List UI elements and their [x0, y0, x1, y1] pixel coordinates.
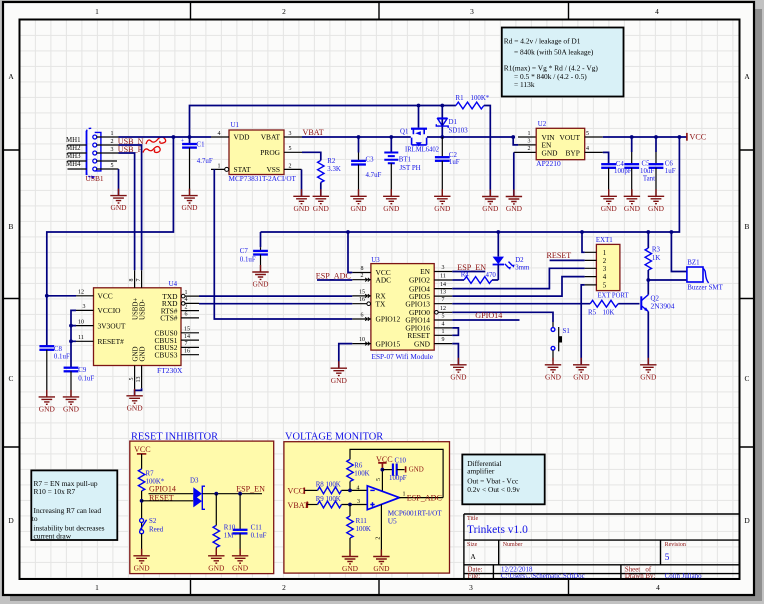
transistor Q1 IRLML6402 — [400, 106, 440, 154]
svg-text:R11: R11 — [356, 518, 368, 525]
svg-text:C: C — [745, 374, 750, 383]
capacitor C5 — [631, 137, 633, 152]
svg-text:5: 5 — [586, 131, 589, 137]
svg-text:16: 16 — [184, 349, 190, 355]
svg-text:amplifier: amplifier — [467, 466, 495, 475]
svg-text:4.7uF: 4.7uF — [197, 158, 213, 165]
svg-text:VOUT: VOUT — [560, 133, 581, 142]
svg-text:AP2210: AP2210 — [536, 159, 561, 168]
svg-text:4: 4 — [656, 583, 660, 592]
svg-text:A: A — [470, 552, 476, 561]
ground under S2 — [133, 549, 150, 573]
svg-text:14: 14 — [184, 334, 190, 340]
battery BT1 — [390, 137, 392, 153]
wire GPIO5 to EXT1 pin4 — [452, 277, 584, 297]
svg-text:100K*: 100K* — [471, 95, 490, 102]
svg-text:EXT PORT: EXT PORT — [598, 290, 629, 299]
wire VCC rail to BZ1 top — [671, 232, 687, 272]
transistor Q2 2N3904 — [641, 280, 675, 365]
svg-text:MCP73831T-2ACI/OT: MCP73831T-2ACI/OT — [229, 174, 297, 183]
svg-text:6: 6 — [361, 313, 364, 319]
ground under USB — [110, 189, 127, 213]
svg-text:3: 3 — [469, 583, 473, 592]
svg-text:IRLML6402: IRLML6402 — [405, 146, 440, 153]
svg-text:BT1: BT1 — [399, 156, 412, 163]
svg-text:ESP-07 Wifi Module: ESP-07 Wifi Module — [372, 352, 434, 361]
svg-text:8: 8 — [361, 266, 364, 272]
op-amp U5 MCP6001 — [367, 486, 399, 510]
connector USB1 — [86, 128, 119, 183]
svg-text:GND: GND — [133, 347, 140, 362]
svg-text:6: 6 — [185, 312, 188, 318]
svg-text:U1: U1 — [231, 122, 240, 129]
wire VBAT to Q1 — [302, 136, 411, 138]
capacitor C2 — [441, 137, 443, 157]
svg-text:S1: S1 — [563, 328, 571, 335]
svg-text:MH1: MH1 — [66, 137, 81, 144]
svg-text:3: 3 — [603, 266, 607, 273]
svg-text:1: 1 — [111, 131, 114, 137]
capacitor C4 — [601, 164, 616, 168]
svg-text:R2: R2 — [327, 158, 336, 165]
svg-text:MH3: MH3 — [66, 153, 81, 160]
ground under U3 GND — [450, 358, 467, 382]
svg-text:Buzzer SMT: Buzzer SMT — [687, 284, 723, 291]
wire GPIO13 to R5 — [452, 303, 590, 305]
node RESET junction — [140, 499, 144, 503]
svg-text:VCCIO: VCCIO — [98, 306, 122, 315]
svg-text:R4: R4 — [461, 272, 470, 279]
wire op-amp output — [399, 497, 443, 499]
resistor R9 — [307, 504, 317, 506]
svg-text:1uF: 1uF — [449, 159, 460, 166]
wire gate rail to Q1/D1/R1 — [190, 106, 456, 138]
IC U3 ESP-07 module — [352, 257, 452, 361]
svg-text:GPIO14: GPIO14 — [149, 484, 176, 493]
svg-text:C6: C6 — [665, 160, 674, 167]
title block — [464, 514, 740, 580]
wire U1 STAT to U3 GPIO12 — [214, 169, 352, 319]
svg-text:5: 5 — [665, 552, 670, 563]
ground port (monitor) — [405, 466, 407, 472]
svg-text:2: 2 — [289, 163, 292, 169]
wire GPIO14 stub — [452, 319, 519, 321]
svg-text:100pF: 100pF — [614, 168, 632, 175]
svg-text:11: 11 — [440, 274, 446, 280]
wire D3 out to ESP_EN — [202, 493, 262, 495]
svg-text:R5: R5 — [588, 310, 597, 317]
svg-text:2: 2 — [603, 258, 607, 265]
svg-text:R10 = 10x R7: R10 = 10x R7 — [34, 487, 76, 496]
wire U4 RXD to U3 TX — [199, 303, 352, 305]
svg-text:11: 11 — [78, 335, 84, 341]
resistor R4 — [452, 279, 464, 281]
svg-text:Title: Title — [467, 516, 478, 522]
svg-text:U4: U4 — [169, 281, 178, 288]
resistor R5 — [590, 300, 618, 307]
svg-text:VBAT: VBAT — [303, 128, 324, 137]
svg-text:10: 10 — [359, 337, 365, 343]
svg-text:8: 8 — [129, 279, 135, 282]
svg-text:VOLTAGE MONITOR: VOLTAGE MONITOR — [285, 432, 383, 443]
wire VBUS from USB pin1 to U1 VDD — [119, 136, 212, 138]
capacitor C9 — [64, 368, 79, 372]
svg-text:100pF: 100pF — [389, 475, 407, 482]
svg-text:R8 100K: R8 100K — [316, 482, 341, 489]
svg-text:4: 4 — [655, 7, 659, 16]
svg-text:= 113k: = 113k — [514, 80, 535, 89]
svg-text:Increasing R7 can lead: Increasing R7 can lead — [34, 506, 102, 515]
svg-text:10: 10 — [78, 319, 84, 325]
svg-text:C1: C1 — [197, 142, 206, 149]
svg-text:A: A — [8, 72, 14, 81]
svg-text:B: B — [745, 222, 750, 231]
svg-text:ESP_ADC: ESP_ADC — [407, 493, 442, 502]
svg-text:5: 5 — [603, 283, 607, 290]
svg-text:9: 9 — [442, 337, 445, 343]
ground under C11 — [232, 549, 249, 573]
connector EXT1 — [585, 237, 629, 299]
resistor R3 — [647, 232, 649, 248]
svg-text:VSS: VSS — [266, 165, 280, 174]
resistor R7 — [138, 469, 144, 491]
svg-text:3V3OUT: 3V3OUT — [98, 321, 126, 330]
svg-text:4: 4 — [185, 297, 188, 303]
svg-text:5: 5 — [442, 314, 445, 320]
ground under U4 — [126, 389, 143, 413]
svg-text:VBAT: VBAT — [288, 501, 309, 510]
switch S1 — [551, 327, 570, 361]
ground under C1 — [181, 189, 198, 213]
svg-text:D2: D2 — [515, 257, 524, 264]
svg-text:D: D — [744, 516, 750, 525]
note box differential amplifier — [462, 455, 544, 505]
resistor R10 — [215, 494, 217, 526]
ground under C2 — [434, 189, 451, 213]
svg-text:BZ1: BZ1 — [687, 260, 700, 267]
svg-text:1: 1 — [603, 250, 607, 257]
ground under S1 — [545, 358, 562, 382]
svg-text:D: D — [8, 516, 14, 525]
svg-text:D1: D1 — [449, 119, 458, 126]
wire VCCIO chain to C9 — [71, 310, 76, 367]
svg-text:R3: R3 — [652, 247, 661, 254]
svg-text:USB1: USB1 — [86, 174, 104, 183]
switch S2 — [140, 519, 144, 523]
ground under C9 — [63, 390, 80, 414]
wire RESET node to D3 — [142, 500, 194, 502]
wire GPIO4 to EXT1 pin3 — [452, 268, 584, 288]
svg-text:Reed: Reed — [149, 526, 164, 533]
svg-text:1: 1 — [95, 7, 99, 16]
power port VCC — [686, 133, 688, 141]
svg-text:SD103: SD103 — [449, 127, 469, 134]
svg-text:GND: GND — [409, 467, 424, 474]
svg-text:U3: U3 — [371, 257, 380, 264]
wire rail to EXT1 pin1 — [582, 232, 585, 252]
svg-text:0.1uF: 0.1uF — [54, 354, 70, 361]
wire ESP_ADC to U3 ADC — [317, 279, 352, 281]
svg-text:U5: U5 — [388, 517, 397, 526]
wire USB_N down to U4 — [119, 145, 142, 270]
wire GPIO14 to D3 — [149, 493, 194, 495]
resistor R2 — [318, 160, 324, 182]
svg-text:JST PH: JST PH — [400, 165, 421, 172]
svg-text:VCC: VCC — [690, 133, 707, 142]
svg-text:2: 2 — [185, 304, 188, 310]
svg-text:2: 2 — [361, 273, 364, 279]
svg-text:C10: C10 — [395, 457, 407, 464]
ground under VSS — [293, 189, 310, 213]
svg-text:R7: R7 — [146, 471, 155, 478]
svg-text:3: 3 — [289, 131, 292, 137]
wire RESET to EXT1 pin2 — [550, 259, 585, 261]
svg-text:2N3904: 2N3904 — [651, 304, 676, 311]
svg-text:VCC: VCC — [288, 487, 305, 496]
ground under EXT1 pin5 — [573, 358, 590, 382]
svg-text:STAT: STAT — [234, 165, 252, 174]
svg-text:C9: C9 — [78, 367, 87, 374]
svg-text:4: 4 — [586, 146, 589, 152]
svg-text:USBD+: USBD+ — [133, 298, 140, 320]
svg-text:15: 15 — [184, 327, 190, 333]
svg-text:GPIO14: GPIO14 — [475, 311, 502, 320]
svg-text:C7: C7 — [240, 248, 249, 255]
svg-text:13: 13 — [440, 290, 446, 296]
svg-text:EXT1: EXT1 — [596, 237, 613, 244]
ground under C3 — [350, 189, 367, 213]
svg-text:GND: GND — [140, 347, 147, 362]
wire Q1 drain to U2 VIN — [427, 136, 513, 138]
ground under BT1 — [383, 189, 400, 213]
svg-text:2: 2 — [375, 537, 381, 540]
svg-text:3: 3 — [111, 147, 114, 153]
svg-text:Colin Juliano: Colin Juliano — [665, 573, 702, 580]
svg-text:= 840k (with 50A leakage): = 840k (with 50A leakage) — [514, 48, 594, 57]
wire U3 EN — [452, 271, 485, 273]
svg-text:C: C — [9, 374, 14, 383]
svg-text:MH2: MH2 — [66, 145, 81, 152]
svg-text:GND: GND — [542, 148, 559, 157]
wire VBUS to U4 VCC — [47, 137, 174, 346]
svg-text:Q1: Q1 — [400, 129, 409, 136]
svg-text:1: 1 — [403, 492, 406, 498]
svg-text:1K: 1K — [652, 255, 660, 262]
svg-text:15: 15 — [359, 289, 365, 295]
wire GPIO0 to S1 — [452, 312, 553, 322]
IC U1 MCP73831 charger — [211, 122, 302, 183]
capacitor C1 — [189, 137, 191, 144]
svg-text:RESET#: RESET# — [98, 337, 125, 346]
ground under GPIO15 — [331, 361, 348, 385]
wire U3 GND pin to ground — [452, 344, 458, 365]
svg-text:GND: GND — [414, 339, 431, 348]
resistor R1 — [456, 102, 484, 109]
svg-text:TX: TX — [376, 299, 387, 308]
wire PROG to R2 — [302, 152, 321, 160]
svg-text:3mm: 3mm — [515, 265, 530, 272]
node VBUS junctions — [172, 135, 176, 139]
svg-text:14: 14 — [440, 282, 446, 288]
buzzer BZ1 — [687, 260, 724, 292]
svg-text:4: 4 — [442, 321, 445, 327]
wire EXT1 pin5 to ground — [581, 285, 584, 365]
svg-text:BYP: BYP — [566, 148, 580, 157]
svg-text:C:\Users\..\Schematic.SchDoc: C:\Users\..\Schematic.SchDoc — [501, 573, 585, 580]
svg-text:to: to — [32, 514, 38, 523]
ground under U2 — [506, 190, 523, 214]
ground under R1 — [482, 190, 499, 214]
svg-text:Revision: Revision — [665, 542, 686, 548]
svg-text:7: 7 — [136, 279, 142, 282]
svg-text:4: 4 — [357, 486, 360, 492]
svg-text:10K: 10K — [603, 310, 615, 317]
svg-text:VCC: VCC — [98, 292, 113, 301]
svg-text:0.2v < Out < 0.9v: 0.2v < Out < 0.9v — [467, 485, 520, 494]
svg-text:1: 1 — [185, 290, 188, 296]
svg-text:Trinkets v1.0: Trinkets v1.0 — [467, 524, 528, 536]
svg-text:Q2: Q2 — [651, 296, 660, 303]
resistor R6 — [347, 459, 353, 481]
wire U3 VCC from rail — [348, 232, 352, 273]
svg-text:R1: R1 — [456, 95, 465, 102]
svg-text:U2: U2 — [538, 121, 547, 128]
wire USB pin5 to GND — [118, 169, 120, 196]
wire USB_P down to U4 — [119, 153, 135, 270]
svg-text:0.1uF: 0.1uF — [78, 375, 94, 382]
svg-text:5: 5 — [289, 146, 292, 152]
svg-text:0.1uF: 0.1uF — [251, 533, 267, 540]
svg-text:1: 1 — [442, 329, 445, 335]
svg-text:5: 5 — [111, 163, 114, 169]
svg-text:GPIO12: GPIO12 — [376, 315, 401, 324]
svg-text:ADC: ADC — [376, 275, 392, 284]
ground under R11 — [342, 550, 359, 574]
ground under R2 — [313, 189, 330, 213]
ground under C8 — [39, 390, 56, 414]
svg-text:4: 4 — [218, 131, 221, 137]
svg-text:FT230X: FT230X — [157, 366, 183, 375]
diode D1 SD103 — [436, 106, 468, 138]
svg-text:7: 7 — [185, 341, 188, 347]
svg-text:CBUS3: CBUS3 — [154, 350, 177, 359]
svg-text:R6: R6 — [354, 463, 363, 470]
svg-text:D3: D3 — [190, 478, 199, 485]
wire VOUT to VCC — [603, 136, 687, 138]
mounting holes MH1-MH4 — [66, 137, 87, 169]
svg-text:3: 3 — [83, 304, 86, 310]
svg-text:1uF: 1uF — [665, 168, 676, 175]
svg-text:3: 3 — [528, 139, 531, 145]
svg-text:C4: C4 — [616, 161, 625, 168]
svg-text:3: 3 — [470, 7, 474, 16]
svg-text:current draw: current draw — [34, 532, 72, 541]
svg-text:12: 12 — [440, 306, 446, 312]
svg-text:MH4: MH4 — [66, 161, 81, 168]
ERC squiggle marks — [143, 137, 166, 153]
svg-text:12: 12 — [78, 290, 84, 296]
svg-text:16: 16 — [359, 297, 365, 303]
IC U2 AP2210 regulator — [511, 121, 602, 196]
svg-text:C8: C8 — [54, 346, 63, 353]
svg-text:CTS#: CTS# — [160, 314, 178, 323]
wire GPIO16 to RESET — [452, 328, 458, 335]
ground under Q2 — [640, 358, 657, 382]
capacitor C10 — [382, 469, 392, 471]
svg-text:A: A — [744, 72, 750, 81]
svg-text:4: 4 — [603, 274, 607, 281]
svg-text:0.1uF: 0.1uF — [240, 256, 256, 263]
svg-text:C11: C11 — [251, 525, 263, 532]
svg-text:ESP_EN: ESP_EN — [236, 484, 265, 493]
capacitor C7 — [260, 232, 262, 247]
svg-text:3: 3 — [442, 265, 445, 271]
svg-text:100K: 100K — [354, 471, 369, 478]
resistor R11 — [349, 505, 351, 517]
svg-text:VBAT: VBAT — [261, 132, 281, 141]
ground under op-amp — [373, 550, 390, 574]
svg-text:ESP_ADC: ESP_ADC — [316, 271, 351, 280]
svg-text:1: 1 — [218, 163, 221, 169]
svg-text:Rd = 4.2v / leakage of D1: Rd = 4.2v / leakage of D1 — [504, 37, 581, 46]
svg-text:13: 13 — [136, 377, 142, 383]
svg-text:VDD: VDD — [234, 132, 251, 141]
svg-text:5: 5 — [376, 478, 382, 481]
svg-text:7: 7 — [442, 297, 445, 303]
svg-text:2: 2 — [282, 583, 286, 592]
wire U3 GPIO15 to GND — [339, 344, 353, 369]
note box calculations — [502, 28, 624, 97]
svg-text:R9 100K: R9 100K — [316, 496, 341, 503]
wire VCC rail down and across — [261, 137, 680, 232]
capacitor C11 — [239, 494, 241, 530]
wire R3/Q2 collector to BZ1 — [648, 279, 687, 281]
svg-text:Tant: Tant — [643, 175, 655, 182]
svg-text:GPIO15: GPIO15 — [376, 339, 401, 348]
svg-text:2: 2 — [111, 139, 114, 145]
svg-text:+: + — [181, 138, 185, 144]
wire U4 TXD to U3 RX — [199, 295, 352, 297]
LED D2 — [497, 232, 499, 257]
svg-text:1: 1 — [95, 583, 99, 592]
svg-text:C3: C3 — [366, 156, 375, 163]
svg-text:5: 5 — [129, 378, 135, 381]
svg-text:100K: 100K — [356, 526, 371, 533]
diode D3 dual — [193, 487, 202, 500]
svg-text:Size: Size — [467, 542, 478, 548]
ground under C7 — [252, 265, 269, 289]
svg-text:B: B — [9, 222, 14, 231]
wire BYP to C4 — [603, 152, 609, 164]
svg-text:2: 2 — [528, 146, 531, 152]
note box R7 pull-up — [31, 470, 117, 540]
svg-text:VCC: VCC — [134, 445, 151, 454]
capacitor C6 — [655, 137, 657, 152]
svg-text:470: 470 — [486, 272, 497, 279]
IC U4 FT230X — [76, 270, 199, 396]
svg-text:PROG: PROG — [260, 148, 280, 157]
svg-text:3.3K: 3.3K — [327, 166, 341, 173]
svg-text:Drawn By:: Drawn By: — [625, 573, 656, 580]
capacitor C3 — [358, 137, 360, 153]
svg-text:File:: File: — [468, 573, 481, 580]
ground under R10 — [208, 549, 225, 573]
resistor R8 — [304, 489, 317, 491]
svg-text:4.7uF: 4.7uF — [366, 172, 382, 179]
svg-text:RESET: RESET — [547, 251, 572, 260]
capacitor C8 — [39, 346, 54, 350]
svg-text:S2: S2 — [149, 518, 157, 525]
